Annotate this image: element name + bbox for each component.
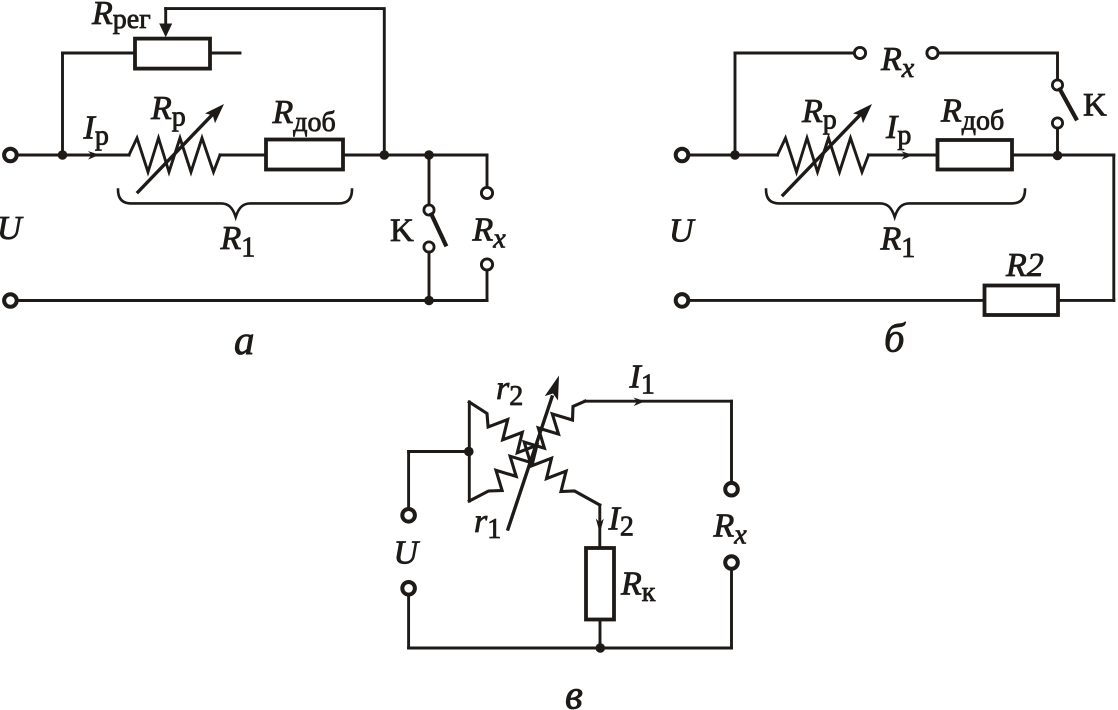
wire right vertical lower (v) xyxy=(730,569,733,648)
current arrow I1 (v) xyxy=(633,398,645,407)
wire main left segment xyxy=(17,154,129,157)
rheostat Rp arrow xyxy=(138,115,212,192)
node junction left (b) xyxy=(730,150,740,160)
terminal U bottom-left (b) xyxy=(676,294,689,307)
wire switch to main (b) xyxy=(1056,128,1059,155)
rheostat Rp zigzag (b) xyxy=(778,138,869,172)
svg-text:Iр: Iр xyxy=(83,109,109,151)
svg-text:б: б xyxy=(884,315,906,361)
wire R2 to right vertical (b) xyxy=(1058,299,1114,302)
switch K contact bottom (b) xyxy=(1052,118,1062,128)
rheostat slider arrow (v) xyxy=(508,397,552,529)
resistor Rk xyxy=(586,548,614,620)
wire Rx branch lower xyxy=(486,270,489,300)
resistor Rdob xyxy=(266,140,343,170)
wire zigzag to Rdob (b) xyxy=(869,154,938,157)
svg-text:Rx: Rx xyxy=(880,41,915,84)
svg-text:K: K xyxy=(390,213,414,249)
terminal U bottom (v) xyxy=(402,582,415,595)
svg-text:Rр: Rр xyxy=(801,93,837,136)
wire Rdob to right corner xyxy=(343,154,487,157)
svg-text:в: в xyxy=(565,672,583,710)
wire Rk to bottom (v) xyxy=(599,620,602,649)
switch K contact top (b) xyxy=(1052,80,1062,90)
brace R1 (b) xyxy=(766,190,1025,218)
svg-text:Rр: Rр xyxy=(150,90,186,133)
node bottom junction xyxy=(424,296,434,306)
wire left vertical lower (v) xyxy=(407,597,410,648)
svg-text:Rдоб: Rдоб xyxy=(272,94,336,138)
svg-text:R1: R1 xyxy=(880,221,916,265)
svg-text:U: U xyxy=(0,210,24,247)
svg-text:а: а xyxy=(234,317,255,363)
wire to Rreg left xyxy=(63,52,136,55)
terminal U top-left xyxy=(4,149,17,162)
wire bottom return xyxy=(17,299,487,302)
svg-text:r2: r2 xyxy=(496,370,523,412)
node feedback junction xyxy=(380,150,390,160)
switch K contact bottom xyxy=(424,242,434,252)
terminal U top-left (b) xyxy=(676,149,689,162)
wire right vertical (b) xyxy=(1112,155,1115,300)
svg-text:U: U xyxy=(669,213,696,250)
wire Rdob to right edge (b) xyxy=(1012,154,1114,157)
rheostat Rp arrow (b) xyxy=(783,115,860,195)
svg-text:R1: R1 xyxy=(220,220,256,264)
svg-text:Rк: Rк xyxy=(620,566,656,609)
current arrow Ip (b) xyxy=(901,151,913,160)
wiper arrow into Rreg xyxy=(164,9,167,26)
svg-text:U: U xyxy=(394,535,421,572)
svg-text:Rx: Rx xyxy=(472,212,507,255)
terminal U top (v) xyxy=(402,509,415,522)
wire top feedback xyxy=(166,9,385,155)
terminal Rx bottom (v) xyxy=(725,556,738,569)
rheostat Rp zigzag xyxy=(129,138,220,172)
wire switch lower lead xyxy=(428,252,431,300)
rheostat left vertical bar (v) xyxy=(468,402,471,501)
wire zigzag to Rdob xyxy=(220,154,266,157)
brace R1 xyxy=(118,190,352,218)
switch K blade (b) xyxy=(1060,90,1076,119)
terminal U bottom-left xyxy=(4,294,17,307)
svg-text:Rрег: Rрег xyxy=(91,0,151,35)
wire to Rx terminal (b) xyxy=(735,52,854,55)
switch K blade xyxy=(432,215,446,245)
svg-text:Rx: Rx xyxy=(713,508,748,551)
wire switch upper lead xyxy=(428,155,431,205)
wire bottom left segment (b) xyxy=(688,299,984,302)
node switch junction top xyxy=(424,150,434,160)
node junction at left vertical xyxy=(58,150,68,160)
wire Rx to switch corner (b) xyxy=(938,53,1057,80)
resistor R2 xyxy=(985,286,1059,316)
terminal Rx top xyxy=(481,187,492,198)
wire right vertical upper (v) xyxy=(730,401,733,483)
svg-text:I2: I2 xyxy=(608,501,634,543)
current arrow Ip xyxy=(88,151,100,160)
resistor Rdob (b) xyxy=(938,140,1013,170)
wire bottom return (v) xyxy=(409,647,732,650)
resistor Rreg xyxy=(135,39,210,69)
wire Rx branch upper xyxy=(486,155,489,187)
wire left horizontal (v) xyxy=(409,450,470,453)
svg-text:K: K xyxy=(1083,88,1107,124)
wire vertical to Rx row (b) xyxy=(734,53,737,155)
rheostat r2 zigzag diagonal (v) xyxy=(469,402,600,505)
terminal Rx bottom xyxy=(481,259,492,270)
terminal Rx left (b) xyxy=(854,47,865,58)
wire vertical to Rreg xyxy=(61,53,64,155)
node switch junction (b) xyxy=(1053,151,1063,161)
svg-text:R2: R2 xyxy=(1005,247,1044,284)
switch K contact top xyxy=(424,205,434,215)
terminal Rx right (b) xyxy=(927,47,938,58)
wire Rreg right stub xyxy=(210,52,240,55)
wire top I1 (v) xyxy=(585,400,732,403)
wire left vertical upper (v) xyxy=(407,452,410,507)
node rheostat junction (v) xyxy=(464,447,474,457)
svg-text:Rдоб: Rдоб xyxy=(940,93,1004,137)
wire rheostat to Rk (v) xyxy=(598,505,601,548)
terminal Rx top (v) xyxy=(725,483,738,496)
svg-text:Iр: Iр xyxy=(885,109,911,151)
node Rk bottom junction (v) xyxy=(596,643,606,653)
rheostat r1 zigzag diagonal (v) xyxy=(469,401,585,501)
wire main left (b) xyxy=(688,154,777,157)
current arrow I2 (v) xyxy=(596,519,604,534)
svg-text:I1: I1 xyxy=(629,359,655,401)
svg-text:r1: r1 xyxy=(474,503,501,545)
